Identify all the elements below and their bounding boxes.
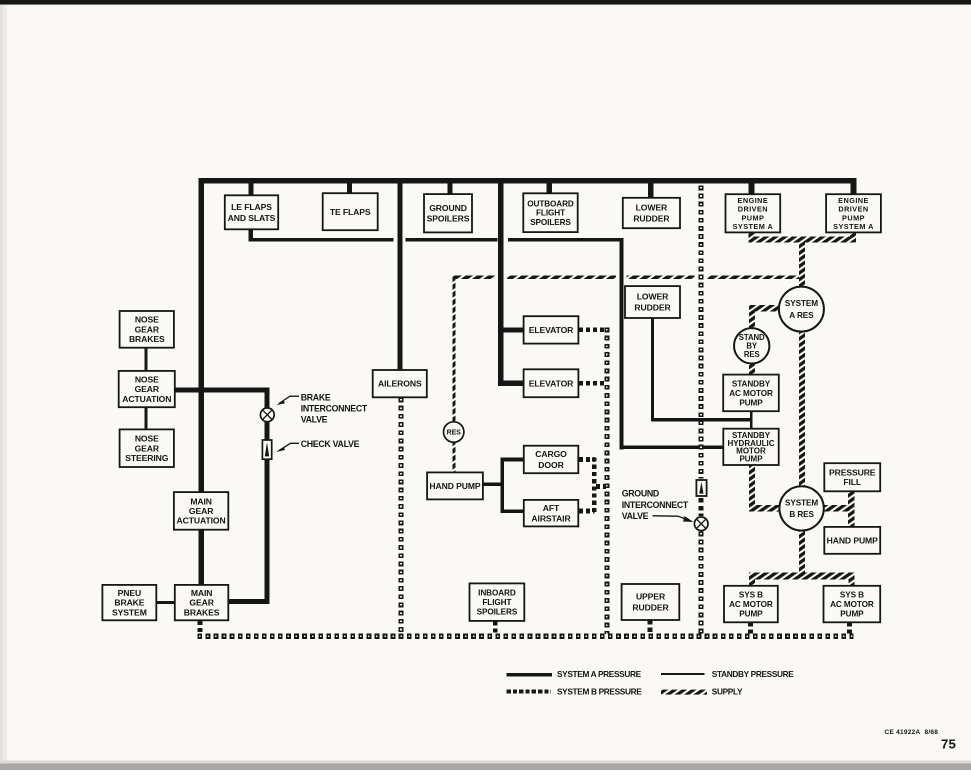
wire: System A vertical to elevators [498, 184, 504, 386]
wire: stub to ELEVATOR lower [503, 381, 524, 386]
svg-text:PUMP: PUMP [739, 609, 763, 618]
wire: lower rudder (mid) drop line [651, 318, 654, 421]
box: STANDBY HYDRAULIC MOTOR PUMP [723, 429, 778, 465]
box: LOWER RUDDER (mid) [625, 286, 680, 318]
box: LE FLAPS AND SLATS [225, 195, 278, 229]
supply line: thin standby supply horizontal [453, 276, 496, 279]
svg-text:NOSE: NOSE [135, 434, 159, 444]
svg-text:GROUND: GROUND [622, 489, 659, 499]
box: NOSE GEAR BRAKES [120, 311, 174, 348]
wire: UPPER RUDDER drop to return bus [648, 620, 653, 634]
svg-text:NOSE: NOSE [135, 315, 159, 325]
wire: bus right end drop to ENGINE DRIVEN PUMP system A no.2 [851, 184, 857, 196]
svg-text:STANDBY PRESSURE: STANDBY PRESSURE [712, 669, 795, 679]
supply line: SYSTEM A RES left arm [751, 305, 780, 311]
supply line: SYSTEM B RES bottom vertical [799, 530, 805, 580]
reservoir: SYSTEM B RES [779, 486, 823, 530]
svg-text:ACTUATION: ACTUATION [122, 394, 171, 404]
wire: stub to LOWER RUDDER upper [648, 184, 654, 199]
svg-text:SPOILERS: SPOILERS [427, 214, 470, 224]
supply line: SYSTEM B RES right arm [823, 505, 850, 511]
svg-text:RUDDER: RUDDER [632, 603, 669, 613]
svg-text:AC MOTOR: AC MOTOR [729, 600, 773, 609]
wire: stub to ELEVATOR upper [503, 327, 524, 332]
legend: SYSTEM A PRESSURE sample [507, 669, 642, 679]
svg-text:CE 41922A 8/68: CE 41922A 8/68 [885, 729, 939, 736]
wire: System A left main vertical (top bus to main gear brakes) [199, 178, 205, 585]
svg-text:PUMP: PUMP [840, 609, 864, 618]
box: PRESSURE FILL [824, 463, 880, 491]
supply line: sys B pumps manifold horizontal [749, 573, 855, 580]
svg-text:GEAR: GEAR [189, 506, 214, 516]
wire: standby bus right corner vertical [620, 238, 624, 449]
wire: lower brake line into MAIN GEAR BRAKES [228, 599, 269, 604]
check valve (System B line) [696, 480, 706, 496]
wire: System B vertical below AILERONS [398, 398, 403, 635]
reservoir: SYSTEM A RES [779, 287, 824, 332]
wire: INBOARD FLIGHT SPOILERS drop to return bus [493, 621, 498, 634]
legend: SUPPLY sample [661, 687, 743, 697]
box: TE FLAPS [323, 193, 378, 230]
wire: bracket stub to AFT AIRSTAIR [500, 509, 524, 513]
wire: standby AC motor pump to hydraulic motor pump [750, 411, 753, 429]
svg-text:ELEVATOR: ELEVATOR [529, 378, 574, 388]
supply line: SYSTEM A RES to SYSTEM B RES vertical [799, 328, 805, 488]
svg-text:TE FLAPS: TE FLAPS [330, 207, 371, 217]
box: UPPER RUDDER [622, 584, 680, 620]
svg-text:AILERONS: AILERONS [378, 379, 422, 389]
supply line: SYSTEM B RES left arm [749, 505, 780, 511]
brake interconnect valve [260, 408, 274, 422]
box: STANDBY AC MOTOR PUMP [723, 375, 779, 412]
scan top black bar [0, 0, 971, 4]
wire: System B main vertical (from top bus, with valves) [699, 186, 704, 479]
svg-text:AFT: AFT [543, 503, 560, 513]
svg-text:FLIGHT: FLIGHT [482, 598, 511, 607]
svg-text:HAND PUMP: HAND PUMP [429, 481, 481, 491]
svg-text:LOWER: LOWER [637, 292, 669, 302]
svg-text:SYS B: SYS B [739, 591, 763, 600]
svg-text:NOSE: NOSE [135, 374, 159, 384]
wire: dashes from AFT AIRSTAIR [579, 509, 595, 514]
wire: standby pressure bus horizontal [249, 238, 394, 242]
svg-text:PUMP: PUMP [842, 213, 865, 222]
svg-text:GEAR: GEAR [135, 384, 160, 394]
svg-text:SYSTEM B PRESSURE: SYSTEM B PRESSURE [557, 687, 642, 697]
svg-text:BRAKE: BRAKE [301, 392, 331, 402]
box: NOSE GEAR STEERING [120, 429, 174, 467]
svg-text:RUDDER: RUDDER [634, 303, 671, 313]
svg-text:VALVE: VALVE [301, 415, 328, 425]
wire: stub to TE FLAPS [347, 184, 352, 194]
box: LOWER RUDDER (top) [623, 198, 680, 228]
wire: lower rudder line to standby pump connector [651, 418, 752, 421]
box: GROUND SPOILERS [424, 194, 472, 232]
box: SYS B AC MOTOR PUMP no.1 [724, 586, 778, 623]
svg-text:ELEVATOR: ELEVATOR [529, 325, 574, 335]
scan left edge shading [0, 5, 7, 765]
box: MAIN GEAR BRAKES [175, 585, 229, 620]
svg-text:SYSTEM: SYSTEM [112, 607, 147, 617]
svg-text:STANDBY: STANDBY [732, 380, 771, 389]
svg-text:INTERCONNECT: INTERCONNECT [301, 404, 368, 414]
svg-text:GEAR: GEAR [189, 598, 214, 608]
svg-text:GEAR: GEAR [135, 443, 160, 453]
ground interconnect valve [694, 517, 708, 531]
supply line: STAND BY RES to standby AC motor pump [749, 363, 755, 374]
wire: stub to OUTBOARD FLIGHT SPOILERS [547, 184, 553, 194]
wire: pneu brake system to main gear brakes [156, 601, 175, 604]
supply line: hydraulic motor pump down to B-res arm [749, 465, 755, 506]
reservoir: STAND BY RES [734, 328, 769, 363]
label: CHECK VALVE [276, 439, 360, 452]
wire: dashes from ELEVATOR lower [579, 381, 604, 386]
svg-text:LE FLAPS: LE FLAPS [231, 202, 272, 212]
box: AILERONS [373, 370, 427, 397]
wire: System B elevator/doors vertical [604, 328, 609, 635]
svg-text:RUDDER: RUDDER [633, 214, 670, 224]
svg-text:DRIVEN: DRIVEN [738, 205, 768, 214]
svg-text:SYSTEM A: SYSTEM A [733, 222, 774, 231]
box: AFT AIRSTAIR [524, 500, 579, 527]
svg-text:FILL: FILL [843, 477, 861, 487]
svg-text:SYSTEM: SYSTEM [785, 299, 818, 308]
supply line: thin vertical to RES [452, 276, 455, 423]
svg-text:AC MOTOR: AC MOTOR [729, 389, 773, 398]
supply line: stub from engine pump no.1 [749, 232, 755, 237]
wire: System A top pressure bus [199, 178, 857, 184]
svg-text:SYSTEM: SYSTEM [785, 499, 818, 508]
svg-text:DRIVEN: DRIVEN [838, 205, 868, 214]
svg-text:BRAKE: BRAKE [114, 598, 144, 608]
wire: nose gear brakes to actuation [145, 348, 148, 371]
wire: hand pump bracket vertical [500, 458, 504, 513]
svg-text:75: 75 [941, 736, 956, 751]
supply line: stub from engine pump no.2 [850, 232, 856, 237]
wire: SYS B pump no.2 drop to return bus [847, 622, 852, 634]
svg-text:SYSTEM A: SYSTEM A [833, 222, 874, 231]
svg-text:PNEU: PNEU [118, 588, 141, 598]
svg-text:CHECK VALVE: CHECK VALVE [301, 439, 360, 449]
svg-text:FLIGHT: FLIGHT [536, 209, 565, 218]
box: ENGINE DRIVEN PUMP SYSTEM A no.2 [826, 194, 881, 232]
svg-text:ENGINE: ENGINE [738, 196, 769, 205]
legend: STANDBY PRESSURE sample [661, 669, 794, 679]
wire: dashes from ELEVATOR upper [579, 328, 604, 333]
svg-text:LOWER: LOWER [636, 203, 668, 213]
svg-text:A RES: A RES [789, 311, 814, 320]
svg-text:UPPER: UPPER [636, 592, 666, 602]
wire: nose gear actuation to steering [145, 407, 148, 429]
legend: SYSTEM B PRESSURE sample [507, 687, 643, 697]
box: INBOARD FLIGHT SPOILERS [470, 583, 525, 621]
svg-text:INBOARD: INBOARD [478, 589, 516, 598]
wire: stub to LE FLAPS AND SLATS [249, 184, 254, 196]
box: MAIN GEAR ACTUATION [174, 492, 228, 530]
box: HAND PUMP (right) [824, 527, 880, 554]
supply line: stub to SYS B pump no.1 [749, 579, 755, 586]
wire: stub to ENGINE DRIVEN PUMP system A no.1 [749, 184, 755, 195]
supply line: stub to SYS B pump no.2 [848, 579, 854, 586]
wire: System A vertical to AILERONS [397, 184, 402, 371]
svg-text:PRESSURE: PRESSURE [829, 468, 876, 478]
svg-text:PUMP: PUMP [741, 213, 764, 222]
wire: brake interconnect vertical line [264, 392, 269, 408]
box: OUTBOARD FLIGHT SPOILERS [523, 193, 577, 232]
wire: nose gear actuation branch [175, 387, 270, 392]
wire: standby line into STANDBY HYDRAULIC MOTOR PUMP [620, 446, 724, 450]
svg-text:SYSTEM A PRESSURE: SYSTEM A PRESSURE [557, 669, 642, 679]
scan bottom grey strip [0, 761, 971, 764]
wire: stub to GROUND SPOILERS [448, 184, 453, 195]
svg-text:RES: RES [744, 350, 760, 359]
wire: dashes from CARGO DOOR [579, 457, 595, 462]
svg-text:RES: RES [447, 430, 462, 437]
svg-text:ACTUATION: ACTUATION [177, 516, 226, 526]
svg-text:DOOR: DOOR [538, 460, 564, 470]
wire: bracket stub to CARGO DOOR [500, 458, 524, 462]
label: GROUND INTERCONNECT VALVE [622, 489, 694, 523]
svg-text:VALVE: VALVE [622, 511, 649, 521]
reservoir: RES (hand pump) [444, 422, 464, 442]
svg-text:STEERING: STEERING [125, 453, 169, 463]
wire: MAIN GEAR BRAKES drop to return bus [198, 621, 203, 635]
svg-text:B RES: B RES [789, 510, 814, 519]
svg-text:SUPPLY: SUPPLY [712, 687, 743, 697]
svg-text:MAIN: MAIN [191, 588, 213, 598]
svg-text:PUMP: PUMP [739, 398, 763, 407]
wire: System B bottom return bus [198, 634, 854, 639]
supply line: engine pump manifold horizontal [749, 237, 857, 243]
svg-text:PUMP: PUMP [739, 455, 763, 464]
svg-text:AIRSTAIR: AIRSTAIR [531, 514, 571, 524]
wire: SYS B pump no.1 drop to return bus [748, 622, 753, 634]
supply line: RES to HAND PUMP [452, 442, 455, 472]
svg-text:SPOILERS: SPOILERS [530, 218, 571, 227]
svg-text:SYS B: SYS B [840, 591, 864, 600]
supply line: down to STAND BY RES [749, 305, 755, 330]
wire: LE FLAPS bottom stub to standby bus [249, 229, 254, 239]
svg-text:SPOILERS: SPOILERS [477, 608, 518, 617]
box: CARGO DOOR [524, 446, 579, 474]
check valve (brake line) [262, 440, 271, 459]
svg-text:GROUND: GROUND [429, 203, 467, 213]
box: SYS B AC MOTOR PUMP no.2 [824, 586, 881, 623]
svg-text:BRAKES: BRAKES [129, 334, 165, 344]
box: HAND PUMP (center) [427, 472, 483, 499]
svg-text:BRAKES: BRAKES [184, 607, 220, 617]
label: BRAKE INTERCONNECT VALVE [276, 392, 368, 424]
supply line: pressure fill / hand pump vertical [848, 491, 854, 527]
wire: dashed junction to System B vertical [596, 484, 606, 489]
svg-text:OUTBOARD: OUTBOARD [527, 199, 574, 208]
svg-text:INTERCONNECT: INTERCONNECT [622, 500, 689, 510]
box: ELEVATOR (lower) [524, 369, 579, 397]
svg-text:CARGO: CARGO [535, 449, 567, 459]
wire: cargo/airstair dashed vertical [592, 458, 597, 514]
svg-text:AND SLATS: AND SLATS [228, 213, 276, 223]
box: ELEVATOR (upper) [524, 316, 579, 343]
svg-text:GEAR: GEAR [135, 324, 160, 334]
wire: hand pump output line [483, 483, 503, 487]
svg-text:ENGINE: ENGINE [838, 196, 869, 205]
svg-text:HAND PUMP: HAND PUMP [827, 535, 879, 545]
svg-text:AC MOTOR: AC MOTOR [830, 600, 874, 609]
box: PNEU BRAKE SYSTEM [102, 585, 156, 620]
supply line: vertical to SYSTEM A RES [799, 242, 805, 287]
svg-text:MAIN: MAIN [190, 496, 212, 506]
box: NOSE GEAR ACTUATION [119, 371, 175, 407]
box: ENGINE DRIVEN PUMP SYSTEM A no.1 [726, 194, 781, 232]
